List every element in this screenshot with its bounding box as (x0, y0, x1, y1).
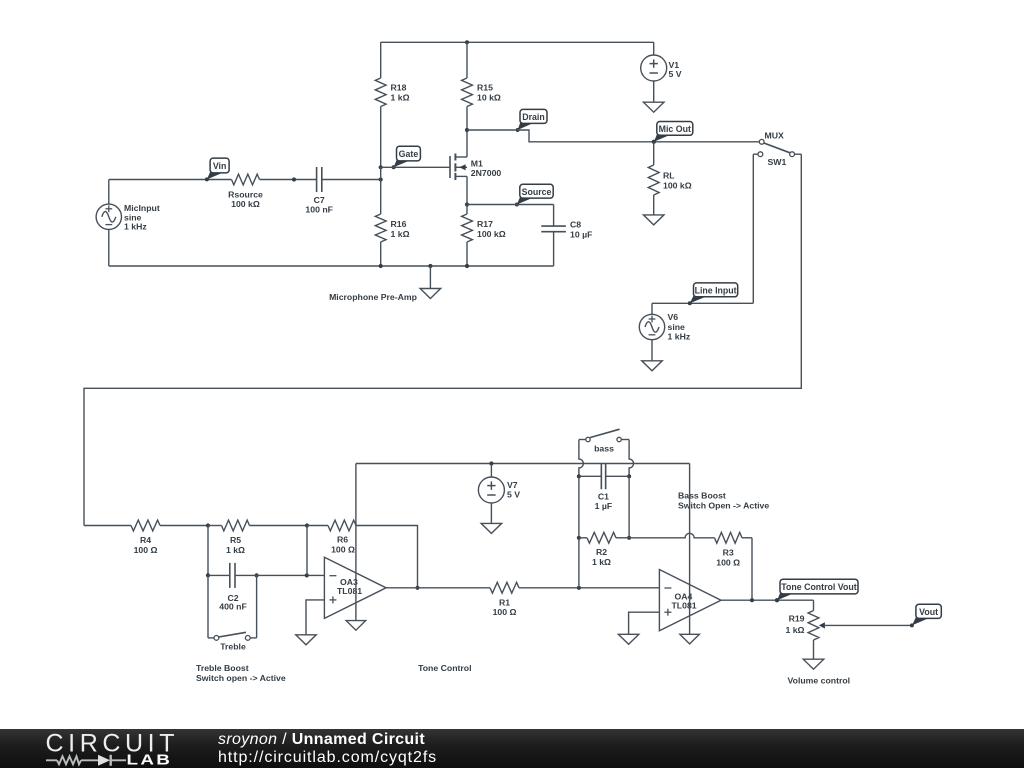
voltage source V7 5V (478, 464, 520, 524)
ground OA3 plus input (296, 635, 317, 645)
svg-text:R18: R18 (391, 83, 407, 93)
node Mic Out flag (652, 122, 693, 144)
svg-text:Switch Open -> Active: Switch Open -> Active (678, 500, 769, 510)
node C2 right junction (255, 573, 259, 577)
node bottom junction R17 (465, 264, 469, 268)
wire bottom rail (109, 265, 554, 267)
ground OA4 supply (680, 634, 700, 644)
resistor R2 1 kOhm (579, 532, 629, 567)
svg-text:Vout: Vout (919, 607, 938, 617)
wire line input row (652, 302, 753, 304)
node Tone Control Vout flag (775, 579, 858, 602)
label Microphone Pre-Amp (329, 292, 417, 302)
capacitor C8 10 uF (541, 205, 592, 267)
ground V7 (481, 523, 502, 533)
svg-text:R19: R19 (789, 614, 805, 624)
CircuitLab logo (0, 729, 220, 768)
svg-text:R2: R2 (596, 547, 607, 557)
resistor R15 10 kOhm (462, 42, 501, 130)
svg-text:SW1: SW1 (768, 157, 787, 167)
node bottom junction R16 (379, 264, 383, 268)
svg-text:M1: M1 (471, 158, 483, 168)
wire C2 row left (208, 574, 230, 576)
svg-text:1 kΩ: 1 kΩ (391, 229, 410, 239)
svg-text:1 kHz: 1 kHz (124, 221, 147, 231)
wire source row (467, 204, 554, 206)
svg-text:sine: sine (668, 322, 686, 332)
wire OA4 output row (721, 599, 814, 601)
node tone control vout junction (775, 598, 779, 602)
node R1 right junction (577, 586, 581, 590)
svg-text:100 Ω: 100 Ω (716, 557, 740, 567)
switch Treble (208, 575, 257, 651)
footer bar (0, 729, 1024, 768)
wire drain to mic-out row (467, 130, 760, 142)
capacitor C7 100 nF (305, 167, 333, 215)
svg-text:C1: C1 (598, 491, 609, 501)
wire R2 to R3 (hops OA4 supply) (629, 533, 714, 538)
svg-text:C8: C8 (570, 220, 581, 230)
node V7 supply junction (489, 461, 493, 465)
resistor R3 100 Ohm (715, 532, 753, 567)
node Source flag (515, 184, 553, 206)
svg-text:R17: R17 (477, 219, 493, 229)
node Gate flag (392, 146, 421, 169)
wire minus node up to R5-R6 junction (306, 526, 308, 576)
potentiometer R19 1 kOhm (785, 600, 912, 659)
ground V6 (642, 361, 663, 371)
svg-text:Gate: Gate (399, 149, 419, 159)
svg-text:TL081: TL081 (672, 601, 697, 611)
node Line Input flag (688, 283, 738, 305)
wire input row (MicInput to Rsource) (109, 179, 232, 181)
ground RL (643, 215, 664, 225)
op-amp OA4 TL081 (659, 570, 721, 631)
svg-text:Drain: Drain (522, 112, 545, 122)
switch bass (579, 429, 629, 453)
resistor R17 100 kOhm (462, 205, 506, 267)
svg-text:1 kΩ: 1 kΩ (785, 625, 804, 635)
svg-text:R5: R5 (230, 535, 241, 545)
transistor M1 2N7000 (450, 130, 501, 205)
wire OA4 plus input to ground (629, 612, 660, 634)
svg-text:100 Ω: 100 Ω (493, 607, 517, 617)
ground microphone preamp (420, 266, 441, 299)
svg-text:Microphone Pre-Amp: Microphone Pre-Amp (329, 292, 417, 302)
svg-text:100 kΩ: 100 kΩ (477, 229, 506, 239)
svg-text:100 kΩ: 100 kΩ (231, 199, 260, 209)
ground OA3 supply (346, 621, 366, 631)
op-amp OA3 TL081 (324, 557, 386, 618)
svg-text:Switch open -> Active: Switch open -> Active (196, 673, 286, 683)
svg-text:RL: RL (663, 170, 675, 180)
svg-text:MUX: MUX (765, 131, 785, 141)
label Bass Boost (678, 490, 769, 510)
node gate junction (379, 165, 383, 169)
wire top rail (381, 41, 654, 43)
node input junction (379, 177, 383, 181)
wire positive supply rail (356, 463, 690, 465)
svg-text:Source: Source (522, 187, 552, 197)
svg-text:1 kHz: 1 kHz (668, 332, 691, 342)
node minus node junction (305, 573, 309, 577)
logo resistor-diode symbol (46, 755, 126, 766)
voltage source V1 5V (641, 42, 682, 102)
svg-text:100 Ω: 100 Ω (134, 545, 158, 555)
svg-text:5 V: 5 V (507, 489, 520, 499)
resistor Rsource 100 kOhm (228, 174, 263, 209)
node R2 right junction (627, 536, 631, 540)
node top rail junction (465, 40, 469, 44)
node Vout flag (910, 604, 941, 627)
node junction on input wire (292, 177, 296, 181)
wire C2 row to op-amp minus (235, 574, 324, 576)
capacitor C1 1 uF (579, 463, 629, 511)
svg-text:Volume control: Volume control (788, 675, 851, 685)
node mic out junction (652, 140, 656, 144)
wire OA3 output row (386, 587, 490, 589)
svg-text:R15: R15 (477, 83, 493, 93)
wire R3 down to output (751, 538, 753, 600)
wire OA3 plus input to ground (306, 600, 324, 635)
voltage source MicInput (sine 1 kHz) (96, 180, 160, 267)
node C1 left junction (577, 474, 581, 478)
node Drain flag (516, 109, 547, 132)
node R3 output junction (750, 598, 754, 602)
svg-text:Vin: Vin (213, 161, 227, 171)
svg-text:Treble: Treble (220, 642, 246, 652)
svg-text:Tone Control Vout: Tone Control Vout (781, 582, 856, 592)
label Treble Boost (196, 663, 286, 683)
wire bass left rail (hops supply) (579, 440, 584, 588)
svg-text:R4: R4 (140, 535, 151, 545)
node OA3 output junction (415, 586, 419, 590)
svg-text:100 nF: 100 nF (305, 205, 333, 215)
node C2 left junction (206, 573, 210, 577)
resistor R6 100 Ohm (307, 520, 356, 554)
svg-text:5 V: 5 V (669, 69, 682, 79)
wire bass right rail (hops supply) (629, 440, 634, 538)
svg-text:Mic Out: Mic Out (659, 124, 691, 134)
resistor R16 1 kOhm (375, 180, 409, 267)
svg-text:LAB: LAB (127, 752, 173, 768)
svg-text:Treble Boost: Treble Boost (196, 663, 249, 673)
svg-text:Tone Control: Tone Control (418, 663, 471, 673)
svg-text:10 kΩ: 10 kΩ (477, 92, 501, 102)
svg-text:1 kΩ: 1 kΩ (226, 545, 245, 555)
svg-text:V6: V6 (668, 312, 679, 322)
wire C7 to gate branch (322, 179, 381, 181)
node source junction (465, 202, 469, 206)
svg-text:400 nF: 400 nF (219, 602, 247, 612)
node C1 right junction (627, 474, 631, 478)
switch SW1 (MUX) (753, 131, 801, 168)
resistor R5 1 kOhm (208, 520, 307, 555)
svg-text:R6: R6 (337, 535, 348, 545)
wire C2 left branch (207, 526, 209, 576)
wire gate row (381, 166, 450, 168)
resistor R18 1 kOhm (375, 42, 409, 167)
svg-text:10 µF: 10 µF (570, 229, 592, 239)
voltage source V6 sine 1kHz (639, 303, 691, 361)
svg-text:100 kΩ: 100 kΩ (663, 181, 692, 191)
node R4-R5 junction (206, 523, 210, 527)
svg-text:100 Ω: 100 Ω (331, 544, 355, 554)
ground V1 (643, 102, 664, 112)
label Volume control (788, 675, 851, 685)
node R5-R6 junction (305, 523, 309, 527)
svg-text:bass: bass (594, 444, 614, 454)
capacitor C2 400 nF (219, 563, 247, 612)
node drain junction (465, 128, 469, 132)
node R2 left junction (577, 536, 581, 540)
resistor R4 100 Ohm (84, 520, 208, 555)
svg-text:1 kΩ: 1 kΩ (592, 557, 611, 567)
svg-text:R16: R16 (391, 219, 407, 229)
svg-text:Bass Boost: Bass Boost (678, 490, 726, 500)
ground OA4 plus input (618, 634, 639, 644)
node Vin flag (205, 158, 229, 181)
wire gate branch segment (380, 167, 382, 179)
resistor R1 100 Ohm (490, 582, 659, 617)
node bottom junction gnd (428, 264, 432, 268)
resistor RL 100 kOhm (648, 142, 691, 215)
label Tone Control (418, 663, 471, 673)
svg-text:1 µF: 1 µF (595, 501, 613, 511)
svg-text:Line Input: Line Input (695, 285, 737, 295)
wire SW1 pole to lower circuit loop (84, 154, 801, 525)
wire Rsource to C7 (260, 179, 317, 181)
svg-text:TL081: TL081 (337, 586, 362, 596)
ground R19 volume (803, 659, 824, 669)
wire OA4 supply pin (689, 464, 691, 635)
svg-text:R3: R3 (723, 547, 734, 557)
svg-text:Rsource: Rsource (228, 190, 263, 200)
svg-text:1 kΩ: 1 kΩ (391, 92, 410, 102)
footer title text (218, 731, 437, 767)
wire OA3 supply rail (355, 464, 357, 621)
wire SW1 throw to line input rail (752, 154, 754, 303)
svg-text:2N7000: 2N7000 (471, 168, 502, 178)
wire R6 to output feedback (356, 526, 418, 588)
